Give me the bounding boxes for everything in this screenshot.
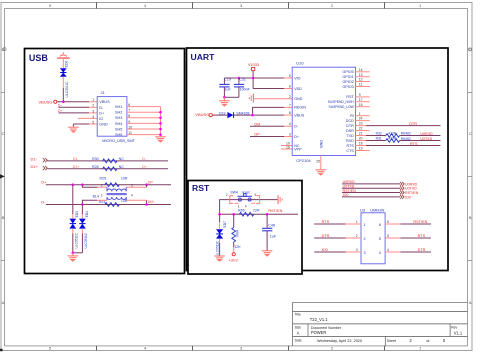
svg-text:GPIO3: GPIO3 xyxy=(343,85,354,89)
svg-text:D+: D+ xyxy=(294,135,299,139)
resistor R24 10R xyxy=(99,199,128,207)
title block xyxy=(293,302,468,346)
resistor R32 470R xyxy=(366,132,441,138)
resistor R26 NC xyxy=(92,165,124,171)
junction DM/choke xyxy=(145,203,148,206)
svg-text:IO0: IO0 xyxy=(405,195,411,199)
svg-text:U0RXD: U0RXD xyxy=(420,132,433,136)
svg-text:R6482: R6482 xyxy=(401,132,411,136)
svg-text:GND: GND xyxy=(99,122,108,126)
svg-text:R32: R32 xyxy=(376,132,382,136)
svg-text:VDD: VDD xyxy=(294,87,302,91)
svg-text:BL4: BL4 xyxy=(93,195,99,199)
svg-text:Date: Date xyxy=(295,339,302,343)
svg-text:RST: RST xyxy=(192,183,210,193)
svg-text:VBUSG: VBUSG xyxy=(195,112,209,117)
net VBUSG (USB) xyxy=(39,99,57,104)
wires SH1-SH6 shield bus xyxy=(127,107,161,137)
wire REGIN pin7 xyxy=(253,107,293,115)
svg-text:DTR: DTR xyxy=(322,234,330,238)
svg-text:RST/EN: RST/EN xyxy=(268,209,282,213)
svg-text:SUSPEND_LOW: SUSPEND_LOW xyxy=(329,105,355,109)
svg-text:RTS: RTS xyxy=(418,234,426,238)
svg-text:2: 2 xyxy=(226,193,228,197)
svg-text:POWER: POWER xyxy=(311,330,327,335)
svg-text:ID: ID xyxy=(99,117,103,121)
wire choke bottom-right xyxy=(146,200,148,204)
svg-text:NC: NC xyxy=(119,165,125,169)
svg-text:+3V3: +3V3 xyxy=(229,259,238,263)
svg-text:2: 2 xyxy=(364,237,366,241)
svg-text:C19: C19 xyxy=(224,78,231,82)
svg-text:A: A xyxy=(2,300,5,305)
wire ED4 column xyxy=(81,205,83,253)
svg-text:DM: DM xyxy=(148,200,154,204)
junction C31 top xyxy=(238,77,241,80)
svg-text:D+: D+ xyxy=(99,111,105,115)
svg-text:10R: 10R xyxy=(121,199,128,203)
svg-text:100nF: 100nF xyxy=(240,88,251,92)
wire D1+ row xyxy=(48,168,169,170)
svg-text:ED4: ED4 xyxy=(85,211,89,218)
UART section box xyxy=(187,48,449,271)
svg-text:D1+: D1+ xyxy=(31,164,39,169)
svg-text:2: 2 xyxy=(289,95,291,99)
port D1- xyxy=(31,156,48,162)
svg-text:6: 6 xyxy=(387,220,389,224)
svg-text:12K: 12K xyxy=(234,245,241,249)
capacitor C31 100nF xyxy=(234,78,251,98)
wire VBUSG to D19 xyxy=(212,114,227,116)
resistor R65 22R xyxy=(238,208,260,216)
svg-text:RI: RI xyxy=(350,114,354,118)
TVS diode ED4 xyxy=(79,211,89,249)
port IO0 xyxy=(342,193,411,199)
junction R64 xyxy=(232,213,235,216)
power symbol VBUS bar (top of ED6) xyxy=(57,52,69,58)
svg-text:DCD: DCD xyxy=(346,119,354,123)
junction VBUS/ED6 xyxy=(62,101,65,104)
svg-text:C: C xyxy=(469,131,472,136)
svg-text:22: 22 xyxy=(359,127,363,131)
svg-text:3: 3 xyxy=(289,133,291,137)
svg-text:4: 4 xyxy=(245,205,247,209)
ground (USB TVS) xyxy=(68,253,79,261)
svg-text:7: 7 xyxy=(289,103,291,107)
svg-text:4: 4 xyxy=(387,248,389,252)
svg-text:D+: D+ xyxy=(142,165,147,169)
wire VBUS to J1 pin1 xyxy=(57,101,97,103)
ground (J1 pin5) xyxy=(68,127,79,132)
wire VBUS pin8 xyxy=(234,114,292,116)
svg-text:ED6: ED6 xyxy=(65,61,69,68)
svg-text:R6482: R6482 xyxy=(401,137,411,141)
op-amp U10 CP2104 xyxy=(286,61,363,163)
svg-text:4: 4 xyxy=(92,115,94,119)
svg-text:D1-: D1- xyxy=(31,156,38,161)
wire D+ to J1 pin3 xyxy=(58,109,97,113)
svg-text:TXD: TXD xyxy=(346,134,354,138)
transistor U3 UMH3N xyxy=(356,207,389,263)
svg-text:4: 4 xyxy=(379,251,381,255)
wire choke top-left xyxy=(82,185,97,188)
wire V1033 rail xyxy=(224,71,253,89)
svg-text:C: C xyxy=(2,131,5,136)
svg-text:SUSPEND_HIGH: SUSPEND_HIGH xyxy=(328,100,355,104)
svg-text:5: 5 xyxy=(379,237,381,241)
svg-text:DTR: DTR xyxy=(409,122,417,126)
wire D1- row xyxy=(48,160,169,162)
svg-text:UMH3N: UMH3N xyxy=(370,207,384,212)
wire choke pin3 stub xyxy=(126,186,146,188)
wire GND to J1 pin5 xyxy=(73,124,97,127)
svg-text:SH3: SH3 xyxy=(115,116,122,120)
svg-text:D1+: D1+ xyxy=(73,165,80,169)
svg-text:RXD: RXD xyxy=(346,139,354,143)
svg-text:D19: D19 xyxy=(219,111,225,115)
wire choke bottom-left xyxy=(82,200,97,204)
svg-text:VBUS: VBUS xyxy=(99,100,110,104)
svg-text:SH5: SH5 xyxy=(115,127,122,131)
svg-text:DTR: DTR xyxy=(346,124,354,128)
wire NC pin10 stub xyxy=(281,145,292,147)
net D- row xyxy=(41,199,171,204)
svg-text:U0TXD: U0TXD xyxy=(420,137,432,141)
svg-text:VIO: VIO xyxy=(294,76,300,80)
svg-text:R30: R30 xyxy=(92,157,99,161)
svg-text:USB: USB xyxy=(29,53,49,63)
svg-text:3: 3 xyxy=(254,193,256,197)
svg-text:2: 2 xyxy=(101,183,103,187)
wire choke pin2 stub xyxy=(97,186,107,188)
junction C48 xyxy=(266,213,269,216)
svg-text:NC: NC xyxy=(119,157,125,161)
wire ED7 column xyxy=(219,214,221,256)
svg-text:CTS: CTS xyxy=(346,149,354,153)
junction VBUS/REGIN xyxy=(251,114,254,117)
resistor R64 12K xyxy=(232,214,241,252)
junction DP/choke xyxy=(145,183,148,186)
USB section box xyxy=(25,49,185,274)
wire VBUS vertical to ED6 xyxy=(62,58,64,102)
svg-text:V1.1: V1.1 xyxy=(454,331,463,336)
svg-text:25: 25 xyxy=(316,159,320,163)
svg-text:16: 16 xyxy=(286,145,290,149)
connector J1 MICRO_USB_SMT xyxy=(92,90,135,143)
svg-text:5: 5 xyxy=(92,120,94,124)
svg-text:1uF: 1uF xyxy=(225,88,232,92)
ground sideways (SW4) xyxy=(278,195,282,204)
wire switch row xyxy=(220,200,278,215)
svg-text:U10: U10 xyxy=(296,61,304,66)
TVS diode ED3 xyxy=(69,211,79,249)
svg-text:3: 3 xyxy=(356,248,358,252)
svg-text:SH2: SH2 xyxy=(115,111,122,115)
svg-text:A: A xyxy=(297,331,300,336)
wire choke pin4 stub xyxy=(126,199,146,201)
wire RTS net xyxy=(366,142,441,146)
svg-text:4: 4 xyxy=(131,194,133,198)
svg-text:DTR: DTR xyxy=(418,248,426,252)
svg-text:Title: Title xyxy=(295,312,301,316)
svg-text:MICRO_USB_SMT: MICRO_USB_SMT xyxy=(102,139,135,143)
ground (C48) xyxy=(262,251,273,256)
svg-text:R64: R64 xyxy=(235,230,239,236)
power symbol +3V3 xyxy=(229,253,238,263)
net VBUSG (UART) xyxy=(195,112,212,117)
junction TVS ground xyxy=(72,252,75,255)
wire VPP pin16 stub xyxy=(281,148,292,150)
svg-text:B: B xyxy=(2,215,5,220)
svg-text:GPIO0: GPIO0 xyxy=(343,70,354,74)
wire VIO pin5 xyxy=(253,77,292,79)
svg-text:D: D xyxy=(469,47,472,52)
wire caps common xyxy=(224,96,239,98)
ground sideways (GND pin2) xyxy=(249,94,253,103)
svg-text:3: 3 xyxy=(364,251,366,255)
svg-text:1: 1 xyxy=(101,194,103,198)
resistor R25 10R xyxy=(100,177,128,187)
svg-text:A: A xyxy=(469,300,472,305)
resistor R31 470R xyxy=(366,137,441,143)
RST section box xyxy=(188,181,302,275)
svg-text:UART: UART xyxy=(191,52,216,62)
wire ID stub J1 pin4 xyxy=(78,117,97,119)
ground (shield) xyxy=(155,137,166,142)
port U0RXD xyxy=(342,180,418,186)
junction shield bus xyxy=(159,111,162,136)
svg-text:D1-: D1- xyxy=(73,157,80,161)
svg-text:DSR: DSR xyxy=(346,129,354,133)
svg-text:VPP: VPP xyxy=(294,147,302,151)
junction D+/choke xyxy=(81,183,84,186)
svg-text:VBUS: VBUS xyxy=(294,113,305,117)
ground (caps) xyxy=(219,97,230,106)
wire GND pin2 xyxy=(254,98,292,100)
svg-text:2: 2 xyxy=(356,234,358,238)
wire choke top-right xyxy=(146,185,148,188)
svg-text:B: B xyxy=(469,215,472,220)
wire DTR net xyxy=(366,122,441,126)
svg-text:Sheet: Sheet xyxy=(387,339,396,343)
svg-text:6: 6 xyxy=(379,223,381,227)
wire DTR to U3 pin2 xyxy=(314,234,361,238)
svg-text:5: 5 xyxy=(387,234,389,238)
wire GND pin25 xyxy=(316,156,321,170)
svg-text:Wednesday, April 22, 2020: Wednesday, April 22, 2020 xyxy=(317,339,362,343)
svg-text:4: 4 xyxy=(289,122,291,126)
svg-text:GPIO2: GPIO2 xyxy=(343,80,354,84)
svg-text:RST/EN: RST/EN xyxy=(413,220,427,224)
svg-text:ULC0511C: ULC0511C xyxy=(75,232,79,248)
svg-text:R25: R25 xyxy=(100,177,107,181)
svg-text:2: 2 xyxy=(92,104,94,108)
svg-text:5: 5 xyxy=(289,74,291,78)
wire ED3 column xyxy=(72,185,74,253)
svg-text:VBUSG: VBUSG xyxy=(39,99,53,104)
svg-text:RTS: RTS xyxy=(322,220,330,224)
svg-text:1: 1 xyxy=(356,220,358,224)
svg-text:IO0: IO0 xyxy=(322,248,328,252)
svg-text:3: 3 xyxy=(92,109,94,113)
svg-text:C31: C31 xyxy=(239,78,246,82)
wire U3 pin4 DTR xyxy=(385,248,431,252)
svg-text:1: 1 xyxy=(364,223,366,227)
svg-text:10R: 10R xyxy=(121,177,128,181)
svg-text:C48: C48 xyxy=(268,224,275,228)
port U0TXD xyxy=(342,185,417,191)
wire RST/EN row xyxy=(220,213,298,215)
svg-text:SH6: SH6 xyxy=(115,133,122,137)
TVS diode ED6 xyxy=(60,61,69,98)
svg-text:SW4: SW4 xyxy=(230,190,238,194)
svg-text:R65: R65 xyxy=(238,208,245,212)
wire U3 pin6 RST/EN xyxy=(385,220,431,224)
wire D- to J1 pin2 xyxy=(58,104,97,108)
wires GPIO/RST/SUSPEND stubs xyxy=(356,72,370,151)
ground (ED7) xyxy=(214,256,225,261)
switch SW4 reset xyxy=(226,190,260,208)
port RST/EN xyxy=(342,189,419,195)
svg-text:22R: 22R xyxy=(253,208,260,212)
svg-text:REGIN: REGIN xyxy=(294,106,306,110)
svg-text:RTS: RTS xyxy=(346,144,354,148)
wire RTS to U3 pin1 xyxy=(314,220,361,224)
junction caps ground xyxy=(223,96,226,99)
svg-text:ULC0511C: ULC0511C xyxy=(84,232,88,248)
svg-text:RST/EN: RST/EN xyxy=(405,191,419,195)
TVS diode ED7 xyxy=(215,221,226,256)
svg-text:T22_V1.1: T22_V1.1 xyxy=(310,317,328,322)
svg-text:1uF: 1uF xyxy=(270,234,277,238)
svg-text:R26: R26 xyxy=(92,165,99,169)
junction D-/choke xyxy=(81,203,84,206)
svg-text:1: 1 xyxy=(92,98,94,102)
capacitor C48 1uF xyxy=(262,214,277,250)
svg-text:ULC0511C: ULC0511C xyxy=(65,81,69,98)
svg-text:ED3: ED3 xyxy=(75,211,79,218)
svg-text:3: 3 xyxy=(131,183,133,187)
svg-text:Rev: Rev xyxy=(451,326,457,330)
port D1+ xyxy=(31,164,48,170)
svg-text:GPIO1: GPIO1 xyxy=(343,75,354,79)
svg-text:RTS: RTS xyxy=(410,142,418,146)
wire VDD pin6 xyxy=(253,88,292,90)
svg-text:U3: U3 xyxy=(360,207,366,212)
capacitor C19 1uF xyxy=(219,78,231,98)
wire IO0 to U3 pin3 xyxy=(314,248,361,252)
svg-text:R31: R31 xyxy=(376,137,382,141)
net DP wire pin3 xyxy=(250,133,292,137)
power symbol V1033 xyxy=(248,63,259,71)
junction switch column xyxy=(218,213,221,216)
svg-text:DP: DP xyxy=(148,180,154,184)
svg-text:V1033: V1033 xyxy=(248,63,259,67)
wire choke pin1 stub xyxy=(97,199,107,201)
svg-text:SH4: SH4 xyxy=(115,122,122,126)
svg-text:Size: Size xyxy=(295,326,302,330)
junction V1033 xyxy=(252,77,255,80)
svg-text:ED7: ED7 xyxy=(223,221,227,228)
svg-text:GND: GND xyxy=(319,140,323,149)
wire U3 pin5 RTS xyxy=(385,234,431,238)
svg-text:D+: D+ xyxy=(41,180,47,185)
svg-text:6: 6 xyxy=(289,85,291,89)
ground (U10) xyxy=(316,170,327,175)
svg-text:GND: GND xyxy=(294,97,303,101)
diode D19 SM4168 xyxy=(219,111,249,118)
svg-text:RST: RST xyxy=(346,95,354,99)
svg-text:D: D xyxy=(2,47,5,52)
net DM wire pin4 xyxy=(250,122,292,126)
junction D+/ED3 xyxy=(72,183,75,186)
choke BL4 xyxy=(93,183,133,200)
net D+ row xyxy=(41,180,171,185)
wire TVS common xyxy=(73,252,83,254)
svg-text:D-: D- xyxy=(41,199,46,204)
svg-text:8: 8 xyxy=(289,111,291,115)
resistor R30 NC xyxy=(92,157,124,163)
svg-text:ULC0511C: ULC0511C xyxy=(215,240,219,256)
svg-text:CP2104: CP2104 xyxy=(296,158,311,163)
svg-text:SH1: SH1 xyxy=(115,105,122,109)
